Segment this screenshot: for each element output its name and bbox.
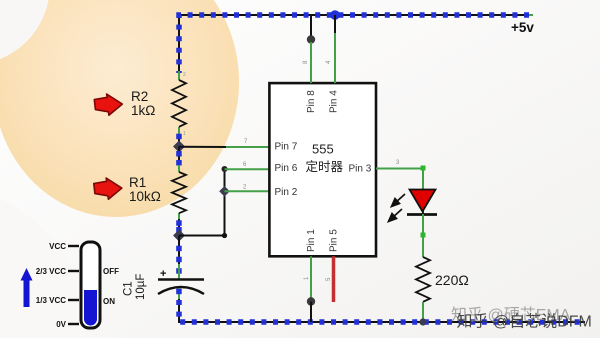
svg-text:Pin 3: Pin 3 — [349, 164, 372, 175]
capacitor C1 (polarized) — [158, 264, 204, 300]
wire: R2 bottom to node A — [178, 135, 180, 146]
svg-text:0V: 0V — [56, 320, 66, 329]
svg-text:Pin 1: Pin 1 — [306, 229, 317, 252]
wire: pin1 to bottom rail — [310, 302, 312, 323]
svg-text:10kΩ: 10kΩ — [129, 189, 161, 204]
resistor R3 220Ω — [416, 257, 430, 322]
node C junction (R1/C1/Pin2-net) — [173, 230, 185, 242]
svg-text:555: 555 — [312, 142, 334, 157]
svg-text:知乎 @自芯说DFM: 知乎 @自芯说DFM — [457, 313, 592, 331]
svg-text:Pin 4: Pin 4 — [329, 90, 340, 113]
svg-text:2: 2 — [183, 72, 186, 78]
svg-text:2/3 VCC: 2/3 VCC — [36, 267, 66, 276]
svg-text:220Ω: 220Ω — [435, 272, 469, 288]
resistor R1 — [172, 165, 186, 220]
svg-text:Pin 7: Pin 7 — [275, 142, 298, 153]
svg-text:10µF: 10µF — [135, 274, 147, 300]
wire: R1 bottom to node C — [176, 219, 182, 235]
pin 6 lead — [225, 162, 270, 169]
node: pin1 bendpoint — [307, 297, 315, 305]
LED emission arrows — [389, 194, 406, 222]
annotation arrow (voltage rise) — [21, 268, 33, 307]
wire: capacitor to bottom rail — [179, 299, 585, 322]
pin 5 lead (unconnected, red) — [326, 256, 334, 302]
pin 2 lead — [225, 185, 270, 192]
node: resistor to bottom rail — [419, 318, 426, 325]
svg-text:Pin 6: Pin 6 — [275, 163, 298, 174]
LED D1 — [407, 189, 437, 215]
wire: top +5V rail — [179, 15, 533, 73]
svg-text:Pin 8: Pin 8 — [306, 90, 317, 113]
wire: top rail to pin 8 — [310, 15, 312, 40]
VCC scale labels — [36, 242, 119, 329]
pin 4 lead — [326, 15, 335, 83]
svg-text:Pin 2: Pin 2 — [275, 187, 298, 198]
pin 8 lead — [303, 42, 311, 83]
resistor R2 — [172, 71, 186, 137]
node: pin8 bendpoint — [307, 35, 315, 43]
wire: node C down to capacitor — [176, 236, 182, 274]
annotation arrow (R1) — [94, 178, 122, 199]
svg-text:C1: C1 — [123, 281, 135, 296]
svg-text:1: 1 — [183, 131, 186, 137]
svg-text:OFF: OFF — [103, 267, 119, 276]
wire: node A to R1 — [176, 147, 182, 167]
pin 1 lead — [304, 256, 311, 298]
wire: node A to pin 7 — [179, 146, 228, 148]
IC U1 555 timer — [269, 83, 376, 256]
svg-text:定时器: 定时器 — [306, 159, 344, 174]
wire: LED to resistor R3 — [421, 214, 426, 257]
svg-text:1kΩ: 1kΩ — [131, 103, 155, 118]
VCC level indicator tube — [81, 242, 100, 328]
svg-text:R1: R1 — [129, 175, 146, 190]
svg-text:R2: R2 — [131, 89, 148, 104]
svg-text:ON: ON — [103, 297, 115, 306]
node A junction (R2/R1/Pin7) — [173, 141, 185, 153]
svg-text:1/3 VCC: 1/3 VCC — [36, 296, 66, 305]
node B junction (pin 2) — [219, 186, 230, 197]
node: pin4 junction on top rail — [330, 10, 340, 20]
svg-text:+5v: +5v — [511, 20, 534, 35]
pin 7 lead — [226, 139, 269, 147]
wire: node C to pin6/pin2 vertical — [179, 169, 227, 238]
pin 3 lead / wire to LED — [376, 160, 426, 190]
annotation arrow (R2) — [94, 94, 122, 115]
node: pin 6 tap — [222, 166, 228, 172]
svg-text:+: + — [160, 268, 166, 280]
svg-text:VCC: VCC — [49, 242, 66, 251]
svg-text:Pin 5: Pin 5 — [329, 229, 340, 252]
